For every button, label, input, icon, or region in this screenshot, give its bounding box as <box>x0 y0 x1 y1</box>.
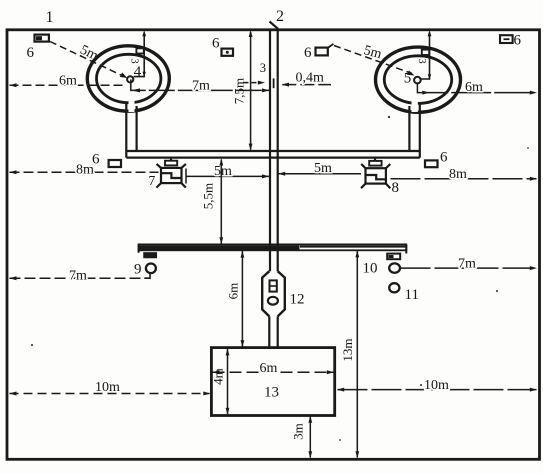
svg-text:8m: 8m <box>449 167 467 182</box>
wire: central feeder line lower (capsule to building) <box>269 316 277 347</box>
dimension 13m (bar to bottom border) <box>356 251 358 458</box>
loop antenna 4 : feed marker on top arc <box>136 48 143 53</box>
svg-text:5m: 5m <box>362 43 383 62</box>
sensor box 6 (mid right) <box>425 160 438 167</box>
loop antenna 5 : radius bracket to top border <box>421 33 430 80</box>
dashed 5m leader to left loop centre <box>50 42 126 78</box>
loop antenna 5 : neck gap <box>412 99 418 112</box>
building 13 <box>211 348 334 416</box>
svg-text:6m: 6m <box>226 283 241 300</box>
svg-text:5,5m: 5,5m <box>201 183 216 209</box>
dimension 8m (left border to unit 7) <box>10 171 159 173</box>
svg-text:8m: 8m <box>76 163 94 178</box>
svg-text:7,5m: 7,5m <box>232 78 247 104</box>
dimension 4m (building height) <box>227 349 229 414</box>
dimension 7m (lamp 10 to right border) <box>401 267 537 269</box>
dimension 7m (left border to lamp 9) <box>10 277 145 279</box>
svg-text:3m: 3m <box>290 423 305 440</box>
tap box under bar (left) <box>144 253 156 258</box>
svg-text:6: 6 <box>212 36 220 52</box>
tap box under bar (right) <box>387 254 400 260</box>
svg-text:3: 3 <box>416 58 427 63</box>
svg-text:10m: 10m <box>424 378 449 393</box>
svg-text:9: 9 <box>134 262 142 278</box>
dimension 5,5m (feeder run to bar) <box>220 159 222 243</box>
dimension 6m (bar to building) <box>241 251 243 347</box>
dimension 5m (unit 7 to feeder) <box>186 169 269 184</box>
svg-text:3: 3 <box>260 61 266 75</box>
svg-text:6m: 6m <box>465 80 483 95</box>
loop antenna 5 : outer ring <box>376 47 461 112</box>
svg-text:7m: 7m <box>192 79 210 94</box>
svg-text:11: 11 <box>405 287 419 303</box>
svg-text:10: 10 <box>363 260 378 276</box>
svg-text:6: 6 <box>514 33 522 49</box>
svg-text:0,4m: 0,4m <box>296 71 325 86</box>
wire: horizontal feeder run between loops <box>126 151 420 158</box>
loop antenna 4 : centre point <box>127 76 133 82</box>
dimension 8m (unit 8 to right border) <box>391 178 537 180</box>
svg-text:6: 6 <box>27 45 35 61</box>
loop antenna 5 : centre point <box>414 77 421 84</box>
svg-text:5m: 5m <box>78 43 101 64</box>
loop antenna 5 : inner ring <box>384 56 451 104</box>
dimension 0,4m (feeder spacing) <box>244 82 259 84</box>
svg-text:5m: 5m <box>214 164 232 179</box>
wire: left loop neck <box>126 103 136 158</box>
wire: central feeder line upper (double conductor) <box>270 29 278 271</box>
loop antenna 4 : outer ring <box>87 46 169 111</box>
dimension 5m (feeder to unit 8) <box>278 173 361 175</box>
dimension 7,5m (top border to feeder run) <box>250 32 252 150</box>
svg-text:4: 4 <box>134 64 142 80</box>
dimension 7m (loop 4 centre to feeder) <box>131 79 269 90</box>
wire: right loop neck <box>409 103 419 158</box>
lamp 9 <box>146 264 156 274</box>
leader from label 2 to feeder <box>270 22 279 29</box>
sensor box 6 (top right) <box>500 35 513 43</box>
svg-text:2: 2 <box>276 8 284 25</box>
matching unit 8 (spool) <box>361 158 390 188</box>
dimension 6m (left, to loop 4 centre) <box>10 84 127 86</box>
distribution bar (middle manifold) <box>139 244 407 253</box>
dimension 10m (building to right border) <box>338 389 537 391</box>
coupler 12 : relay box <box>270 280 277 291</box>
svg-text:12: 12 <box>290 292 305 308</box>
svg-text:1: 1 <box>46 9 54 26</box>
loop antenna 4 : radius bracket to top border <box>134 33 145 77</box>
dimension 10m (left border to building) <box>10 393 210 395</box>
scan specks <box>31 116 529 441</box>
svg-text:6: 6 <box>440 150 448 166</box>
svg-text:7m: 7m <box>69 269 87 284</box>
loop antenna 4 : neck gap <box>129 99 135 112</box>
svg-text:13m: 13m <box>340 338 355 361</box>
lamp 11 <box>389 283 399 292</box>
svg-text:6: 6 <box>304 45 312 61</box>
dashed 5m leader to right loop centre <box>334 46 412 74</box>
svg-text:5m: 5m <box>314 161 332 176</box>
svg-text:6m: 6m <box>260 361 278 376</box>
svg-text:13: 13 <box>264 385 279 401</box>
sensor box 6 (right of feeder) <box>316 48 328 56</box>
svg-text:4m: 4m <box>210 368 225 385</box>
coupler 12 (capsule) <box>262 271 285 316</box>
svg-text:8: 8 <box>392 180 400 196</box>
dimension 6m (building width) <box>213 371 334 373</box>
sensor box 6 (left of feeder) <box>222 49 234 56</box>
loop antenna 4 : inner ring <box>97 54 161 102</box>
svg-text:7m: 7m <box>458 257 476 272</box>
loop antenna 5 : feed marker on top arc <box>422 50 429 55</box>
svg-text:3: 3 <box>128 58 139 63</box>
dimension 6m (loop 5 centre to right border) <box>417 83 536 92</box>
svg-text:6m: 6m <box>59 74 77 89</box>
dimension 3m (building to bottom border) <box>309 417 311 458</box>
svg-text:7: 7 <box>149 173 156 188</box>
coupler 12 : lamp <box>268 297 278 305</box>
svg-text:10m: 10m <box>95 380 120 395</box>
matching unit 7 (spool) <box>156 158 185 188</box>
sensor box 6 (mid left) <box>109 160 121 167</box>
lamp 10 <box>389 263 400 272</box>
sensor box 6 (top left) <box>35 35 49 42</box>
